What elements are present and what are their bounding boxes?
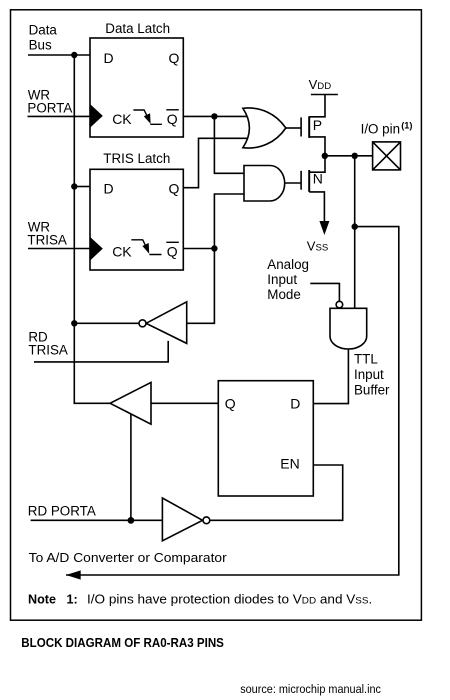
svg-text:CK: CK — [112, 243, 132, 259]
wire: N source down to VSS — [309, 192, 324, 222]
clock edge arrowhead TRIS latch — [142, 243, 149, 254]
buffer B1: RD TRISA buffer triangle pointing left — [146, 302, 187, 344]
wire: data latch Qbar output to OR gate — [183, 115, 250, 117]
wire: output buffer enable — [130, 414, 132, 521]
arrow head to A/D converter — [66, 570, 81, 579]
wire: inverter output to EN input — [210, 465, 343, 520]
label: WR TRISA — [27, 220, 67, 248]
gate G1: OR gate — [243, 108, 286, 148]
wire: TRIS latch D input — [74, 186, 90, 188]
svg-text:P: P — [313, 117, 322, 133]
svg-text:BLOCK DIAGRAM OF RA0-RA3 PINS: BLOCK DIAGRAM OF RA0-RA3 PINS — [21, 635, 224, 650]
svg-text:I/O pin(1): I/O pin(1) — [361, 120, 413, 136]
svg-text:TTL: TTL — [354, 351, 378, 366]
wire: branch down to AND gate top input — [214, 116, 246, 173]
svg-text:EN: EN — [280, 456, 299, 472]
svg-text:N: N — [313, 171, 323, 187]
wire: WR PORTA — [28, 115, 91, 117]
svg-text:Bus: Bus — [29, 37, 52, 52]
svg-text:D: D — [104, 180, 114, 196]
svg-text:1:: 1: — [67, 592, 78, 606]
inversion bubble on TTL buffer input — [336, 301, 343, 308]
svg-text:Q: Q — [225, 396, 236, 412]
wire: OR output to P gate — [286, 127, 301, 129]
label: Data Bus — [29, 23, 58, 53]
I/O pin pad symbol — [373, 142, 401, 170]
node: feedback junction — [352, 223, 358, 229]
svg-text:Input: Input — [267, 272, 297, 287]
node: TRIS D junction — [71, 183, 77, 189]
svg-text:RD PORTA: RD PORTA — [28, 504, 96, 519]
clock edge symbol in TRIS latch — [131, 240, 161, 255]
wire: N drain up to node — [309, 156, 325, 172]
clock edge symbol in data latch — [133, 110, 162, 124]
svg-text:VDD: VDD — [309, 77, 332, 92]
inversion bubble on B1 output — [139, 320, 146, 327]
wire: branch up to AND gate bottom input — [214, 194, 246, 249]
label: RD TRISA — [28, 330, 68, 358]
svg-text:Q: Q — [169, 180, 180, 196]
svg-text:D: D — [104, 50, 114, 66]
svg-text:Q: Q — [167, 111, 178, 127]
pad diagonal 1 — [373, 142, 401, 170]
svg-text:Q: Q — [169, 50, 180, 66]
wire: latch Q output to output buffer — [151, 402, 218, 404]
svg-text:CK: CK — [112, 111, 132, 127]
latch U1: Data Latch box — [90, 38, 183, 137]
clock wedge of TRIS latch — [90, 237, 103, 261]
wire: RD TRISA with rise into buffer enable — [34, 341, 168, 362]
gate G3: TTL input buffer (AND shape pointing down) — [330, 308, 367, 349]
svg-text:PORTA: PORTA — [27, 101, 72, 116]
wire: RD PORTA — [31, 519, 163, 521]
svg-text:source: microchip manual.inc: source: microchip manual.inc — [240, 682, 381, 696]
node: TRIS Qbar junction — [211, 245, 217, 251]
svg-text:To A/D Converter or Comparator: To A/D Converter or Comparator — [29, 550, 228, 565]
clock edge arrowhead data latch — [144, 113, 151, 124]
node: RD PORTA junction — [127, 517, 134, 524]
wire: TTL buffer output to latch D input — [313, 349, 348, 404]
svg-text:Analog: Analog — [267, 257, 309, 272]
note 1 text — [28, 592, 372, 606]
svg-text:Data Latch: Data Latch — [105, 21, 170, 36]
svg-text:Mode: Mode — [267, 287, 301, 302]
latch U2: TRIS Latch box — [90, 169, 183, 270]
wire: feedback to right rail down to RD PORTA arrow line — [66, 227, 399, 575]
latch U3: input latch box Q/D/EN — [218, 381, 313, 496]
inversion bubble on B3 output — [203, 517, 210, 524]
wire: TRIS latch Q output up to OR gate bottom input — [183, 138, 250, 187]
svg-text:VSS: VSS — [307, 238, 328, 253]
svg-text:TRIS Latch: TRIS Latch — [103, 151, 170, 166]
svg-text:Data: Data — [29, 23, 58, 38]
pin Qbar of data latch — [166, 110, 179, 127]
label: WR PORTA — [27, 87, 72, 115]
svg-text:I/O pins have protection diode: I/O pins have protection diodes to VDD a… — [87, 592, 372, 606]
clock wedge of data latch — [90, 104, 103, 128]
VDD terminal bar — [311, 94, 338, 96]
transistor P: channel bar — [308, 116, 310, 138]
wire: AND output to N gate — [285, 182, 301, 184]
wire: pin node down to TTL buffer input — [354, 156, 356, 308]
border frame — [11, 10, 422, 620]
label: Analog Input Mode — [267, 257, 309, 302]
wire: TRIS latch Qbar output — [183, 248, 214, 250]
svg-text:D: D — [290, 396, 300, 412]
inverter B3: RD PORTA inverter triangle pointing right — [162, 498, 202, 541]
transistor P: gate bar — [300, 117, 302, 136]
node: pin node dot left — [322, 153, 328, 159]
wire: branch down to RD TRISA buffer input — [187, 249, 215, 324]
svg-text:Buffer: Buffer — [354, 382, 390, 397]
wire: VDD to P source — [309, 95, 325, 117]
label: TTL Input Buffer — [354, 351, 390, 397]
wire: WR TRISA — [28, 248, 90, 250]
svg-text:TRISA: TRISA — [28, 343, 68, 358]
gate G2: AND gate — [244, 166, 285, 202]
transistor N: gate bar — [300, 171, 302, 190]
wire: node to I/O pin pad — [325, 155, 373, 157]
transistor N: channel bar — [308, 170, 310, 192]
node: B1 output junction on bus — [71, 320, 77, 326]
wire: data bus horizontal — [28, 54, 90, 56]
svg-text:Note: Note — [28, 592, 56, 606]
node: junction on Qbar wire — [211, 113, 217, 119]
buffer B2: output buffer triangle pointing left — [110, 382, 151, 424]
wire: B1 output to data bus — [74, 322, 139, 324]
svg-text:TRISA: TRISA — [27, 233, 67, 248]
svg-text:Input: Input — [354, 367, 384, 382]
wire: P drain down to node — [309, 137, 325, 156]
node: data bus junction — [71, 52, 77, 58]
node: pin node dot right — [352, 153, 358, 159]
wire: analog input mode to TTL buffer bubble — [310, 283, 339, 301]
VSS arrow head — [319, 221, 329, 235]
pin Qbar of TRIS latch — [166, 242, 179, 259]
wire: data bus vertical with corner to output buffer — [74, 55, 110, 403]
svg-text:Q: Q — [167, 243, 178, 259]
pad diagonal 2 — [373, 142, 401, 170]
